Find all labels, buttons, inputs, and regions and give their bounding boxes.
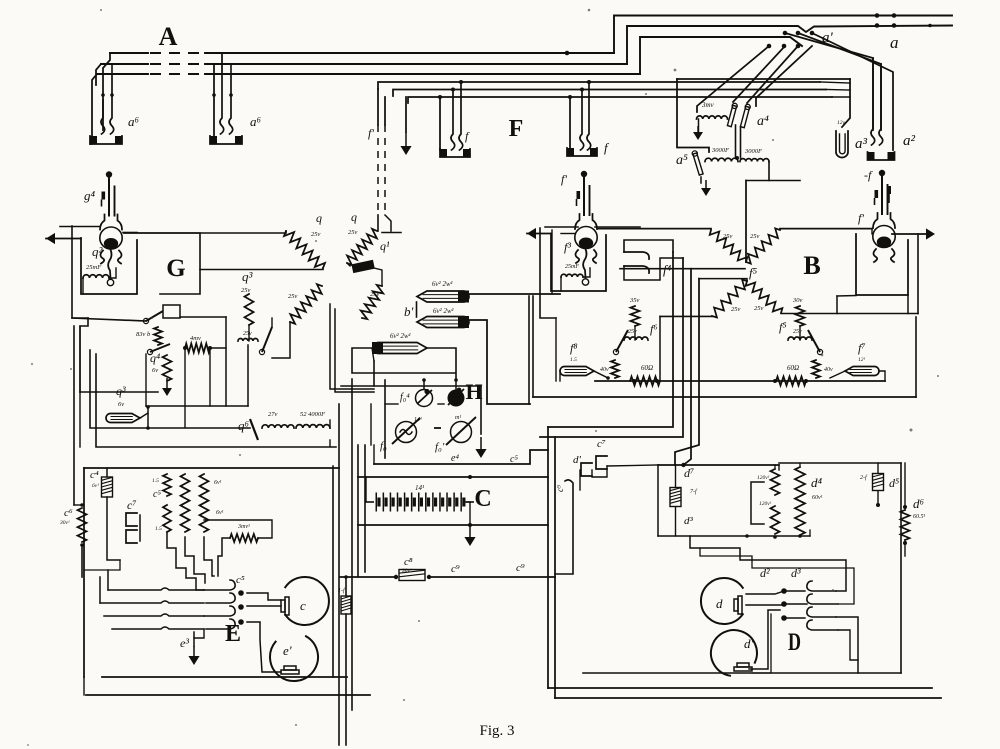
svg-text:F: F	[509, 116, 524, 142]
resistor 25v center G	[290, 284, 322, 324]
svg-text:6v² 2w¹: 6v² 2w¹	[432, 280, 453, 288]
svg-text:c⁷: c⁷	[597, 438, 606, 450]
tall resistor E 1	[181, 474, 190, 532]
svg-text:60.5¹: 60.5¹	[913, 514, 926, 520]
meter f04 circle	[416, 390, 433, 407]
svg-text:30v¹: 30v¹	[59, 520, 70, 526]
svg-text:c⁵: c⁵	[153, 489, 161, 500]
svg-text:d³: d³	[791, 566, 801, 580]
D box left verticals	[547, 427, 549, 688]
wire coil to pyramid	[769, 162, 800, 181]
wire trunk bus line 1	[110, 52, 148, 54]
pyramid resistor lower	[660, 315, 712, 317]
wire junction box lower	[180, 316, 226, 318]
svg-text:60Ω: 60Ω	[641, 364, 653, 372]
pyramid resistor f5 upper	[597, 228, 711, 230]
E wire band to hooks	[108, 588, 204, 590]
svg-text:d': d'	[744, 636, 754, 651]
wire bundle w4	[675, 279, 699, 465]
E outer bottom wire	[86, 694, 370, 696]
svg-text:q: q	[351, 210, 357, 224]
svg-text:b': b'	[404, 304, 414, 319]
svg-text:d⁵: d⁵	[889, 476, 899, 490]
fuse loop a3	[836, 131, 848, 158]
component on center vertical	[341, 596, 351, 614]
svg-text:25v: 25v	[750, 233, 760, 240]
C box bottom wire	[358, 524, 548, 526]
svg-text:25v: 25v	[754, 305, 764, 312]
H block wires	[384, 380, 386, 458]
left coil f6	[624, 337, 648, 340]
right resistor 60ohm	[776, 377, 806, 386]
vertical wires right of G	[330, 304, 374, 389]
wires from d coils down to hooks	[690, 536, 846, 591]
wire fan diagonal to a2 cup	[812, 33, 893, 150]
svg-text:30v¹: 30v¹	[401, 568, 412, 574]
switch hooks D bank	[807, 581, 836, 591]
svg-text:c⁹: c⁹	[555, 485, 565, 492]
switch blade q4	[150, 344, 170, 352]
svg-text:A: A	[159, 22, 178, 51]
svg-text:d': d'	[573, 454, 582, 466]
svg-text:83v b: 83v b	[136, 331, 151, 338]
svg-text:q¹: q¹	[380, 239, 390, 253]
svg-text:q⁶: q⁶	[238, 418, 250, 433]
meter dark circle	[448, 390, 465, 407]
D bottom outer wires	[548, 687, 932, 689]
svg-text:q³: q³	[242, 269, 254, 284]
svg-text:c⁹: c⁹	[451, 563, 460, 575]
svg-text:6v¹: 6v¹	[214, 480, 222, 486]
svg-text:25v: 25v	[723, 233, 733, 240]
svg-text:c⁹: c⁹	[516, 562, 525, 574]
D bottom inner wire	[583, 672, 901, 674]
section label D	[788, 628, 801, 656]
wire trunk bus line 3	[97, 73, 148, 75]
ground arrow below a5	[705, 180, 707, 190]
wire drops to cup f2	[569, 97, 571, 150]
wire drops from 4mv	[184, 348, 186, 427]
left outer vertical wires	[73, 326, 75, 505]
wire fan diagonal 4	[756, 46, 812, 106]
svg-text:C: C	[474, 486, 491, 512]
svg-text:12v: 12v	[837, 120, 846, 126]
wire drops to left cup 1	[103, 53, 110, 130]
svg-text:14¹: 14¹	[414, 416, 422, 423]
wires below coils d	[658, 535, 747, 537]
receiver d earpiece	[701, 578, 743, 624]
svg-text:d³: d³	[684, 515, 694, 527]
svg-text:c: c	[300, 598, 306, 613]
svg-text:E: E	[225, 621, 241, 647]
svg-text:f₀⁴: f₀⁴	[400, 392, 410, 403]
svg-text:25v: 25v	[311, 231, 321, 238]
svg-text:25v: 25v	[288, 293, 298, 300]
svg-text:6v¹: 6v¹	[216, 510, 224, 516]
svg-text:e⁴: e⁴	[451, 453, 459, 464]
left resistor 40v	[611, 360, 619, 378]
wire from e-prime plug	[247, 622, 281, 672]
H bottom wire	[374, 450, 548, 464]
battery cells 14	[366, 501, 374, 503]
svg-text:3mv¹: 3mv¹	[237, 524, 250, 530]
minus sign	[434, 427, 441, 429]
svg-text:f⁶: f⁶	[650, 322, 658, 336]
coil 3mv near a4	[697, 116, 728, 119]
svg-text:d⁴: d⁴	[811, 475, 823, 490]
C box top wire	[358, 476, 548, 478]
wire drops to cup f1	[439, 97, 441, 150]
AC source f0	[396, 422, 417, 443]
wire G bottom to E	[329, 440, 331, 446]
right coil	[788, 337, 812, 340]
B bottom inner wire	[595, 380, 885, 382]
resistor d4	[795, 467, 805, 535]
wire under resistor q	[200, 268, 323, 270]
svg-text:f': f'	[368, 126, 374, 140]
svg-text:60v¹: 60v¹	[812, 495, 823, 501]
hook wire to D	[555, 480, 573, 574]
svg-text:14¹: 14¹	[415, 484, 424, 492]
svg-text:G: G	[166, 255, 185, 282]
right output arrow B	[926, 228, 935, 239]
right switch blade	[808, 330, 820, 352]
switch hooks E bank	[204, 580, 235, 590]
svg-text:a⁶: a⁶	[250, 114, 262, 129]
svg-text:25mF: 25mF	[86, 264, 102, 271]
middle vertical wires	[528, 296, 530, 404]
vertical wires center bottom	[332, 466, 334, 677]
contact dots E	[238, 590, 244, 596]
svg-text:6v² 2w¹: 6v² 2w¹	[433, 307, 454, 315]
coil 25mF under tube	[83, 275, 109, 278]
svg-text:25v: 25v	[348, 229, 358, 236]
svg-text:a⁴: a⁴	[757, 114, 769, 129]
resistor with ground arrow in G	[163, 355, 172, 381]
wire resistor to coil	[272, 322, 290, 358]
svg-text:120v¹: 120v¹	[759, 501, 772, 507]
ground arrow below C	[469, 523, 471, 539]
svg-text:a³: a³	[855, 136, 868, 152]
ground arrow f branch	[405, 97, 407, 132]
svg-text:d²: d²	[760, 566, 770, 580]
wire fan diagonal 2	[733, 46, 785, 102]
resistor 3mv E	[230, 534, 258, 542]
triode tube g with antenna	[106, 171, 112, 177]
receiver d-prime earpiece	[711, 630, 757, 676]
induction coils 3000F pair	[705, 158, 738, 161]
wire F bus 1	[378, 82, 820, 89]
cup electrode left 1	[90, 136, 122, 144]
wire from tube top to resistor q	[124, 231, 286, 233]
resistor bank E small 2	[163, 505, 171, 532]
wire F bus 2	[393, 90, 826, 97]
svg-text:q³: q³	[116, 384, 126, 398]
left output arrow B	[527, 228, 536, 239]
tall resistor E 2	[200, 474, 209, 532]
svg-text:1.5: 1.5	[570, 357, 577, 363]
svg-text:d⁶: d⁶	[913, 496, 925, 511]
lamp b3 6v 2w	[373, 343, 427, 354]
wire c8 horizontal	[340, 576, 395, 578]
box around right tube	[856, 234, 908, 295]
wire bundle w1	[548, 252, 673, 427]
left switch blade	[616, 330, 628, 352]
arrow ground H right	[480, 386, 482, 434]
switch blades a4	[727, 105, 736, 126]
svg-text:d⁷: d⁷	[684, 466, 694, 480]
coil under q3	[238, 339, 258, 341]
left resistor 60ohm	[630, 377, 660, 386]
wire fan diagonal to a2 hook 2	[798, 33, 881, 130]
lamp b1 6v 2w	[417, 291, 469, 302]
svg-text:c⁵: c⁵	[510, 454, 518, 465]
coil under f3	[561, 274, 583, 277]
wires around b lamps	[469, 293, 560, 295]
svg-text:m¹: m¹	[455, 415, 461, 421]
svg-text:c⁷: c⁷	[127, 498, 137, 512]
svg-text:f⁷: f⁷	[858, 341, 866, 355]
scan specks	[674, 69, 677, 72]
svg-text:q²: q²	[92, 244, 104, 259]
svg-text:f⁵: f⁵	[749, 265, 758, 280]
svg-text:6v² 2w¹: 6v² 2w¹	[390, 332, 411, 340]
svg-text:60Ω: 60Ω	[787, 364, 799, 372]
B bottom outer wire	[533, 396, 916, 398]
cup electrode f2	[567, 148, 597, 156]
wire from a5 coil down to pyramid	[745, 181, 747, 263]
receiver e-prime earpiece	[270, 636, 318, 681]
svg-text:40v: 40v	[600, 366, 609, 373]
svg-text:B: B	[803, 251, 820, 280]
wire f-prime dashed drop	[377, 89, 379, 125]
wires blades to coils	[735, 125, 737, 158]
cup electrode a2	[868, 152, 895, 160]
box around tube f3	[551, 234, 606, 292]
E cascade wires	[167, 532, 204, 590]
contact dots D	[781, 588, 787, 594]
svg-text:q⁴: q⁴	[150, 351, 160, 365]
D top right rail	[779, 462, 901, 464]
switch blade q5	[262, 327, 272, 352]
D box top wire	[658, 464, 779, 466]
svg-text:c⁶: c⁶	[64, 507, 73, 519]
wire bundle w2	[540, 258, 683, 437]
svg-text:6v: 6v	[152, 367, 158, 374]
svg-text:3000F: 3000F	[711, 147, 730, 154]
cup electrode left 2	[210, 136, 242, 144]
svg-text:a⁶: a⁶	[128, 114, 140, 129]
svg-text:25v: 25v	[370, 291, 380, 298]
junction box small	[163, 305, 180, 318]
svg-text:25mF: 25mF	[565, 264, 579, 270]
wire F bus 3	[408, 97, 832, 103]
triode tube f3 with antenna	[581, 171, 587, 177]
svg-text:1.5: 1.5	[155, 526, 162, 532]
left verticals H-C	[357, 445, 359, 577]
wire drops to left cup 2	[213, 64, 215, 95]
E interior verticals	[84, 560, 120, 570]
svg-text:f⁵: f⁵	[779, 320, 787, 334]
left output arrow G	[46, 233, 55, 244]
svg-text:e³: e³	[180, 636, 189, 650]
E box outline	[83, 468, 85, 677]
svg-text:12¹: 12¹	[858, 357, 866, 363]
svg-text:6v: 6v	[118, 401, 124, 408]
svg-text:35v: 35v	[629, 297, 640, 304]
receiver c earpiece	[285, 577, 329, 625]
svg-text:H: H	[465, 379, 482, 404]
svg-text:c⁵: c⁵	[236, 574, 245, 586]
svg-text:f': f'	[858, 211, 864, 225]
svg-text:e': e'	[283, 643, 292, 658]
svg-text:f₀: f₀	[380, 440, 387, 452]
terminal dots on line a	[875, 13, 880, 18]
svg-text:a⁵: a⁵	[676, 153, 688, 168]
resistor 4mv horizontal	[185, 344, 210, 353]
resistor 25v below q1	[361, 285, 383, 319]
svg-text:40v: 40v	[824, 366, 833, 373]
wire fan diagonal 3	[747, 46, 798, 103]
svg-text:25v: 25v	[243, 331, 252, 337]
wire bundle w3	[684, 269, 692, 465]
svg-text:D: D	[788, 628, 801, 656]
svg-text:1.5: 1.5	[152, 478, 159, 484]
svg-text:a: a	[890, 33, 899, 52]
triode tube f-right with antenna	[887, 186, 891, 194]
lamp b2 6v 2w	[417, 317, 469, 328]
resistor q 25v right	[347, 229, 377, 265]
hook tails D	[836, 617, 858, 673]
svg-text:4mv: 4mv	[190, 335, 201, 342]
G block outer wires	[79, 326, 81, 392]
svg-text:6v¹: 6v¹	[92, 483, 99, 489]
resistor q 25v left	[284, 231, 325, 268]
component c8	[399, 570, 425, 581]
svg-text:Fig. 3: Fig. 3	[479, 723, 514, 739]
wire row y406	[146, 405, 248, 407]
svg-text:f': f'	[561, 172, 567, 186]
right resistor 40v	[812, 360, 820, 378]
wire left from pyramid valley	[620, 268, 745, 270]
wire fan diagonal to a2 hook 1	[785, 33, 873, 130]
wire fan diagonal 1	[697, 46, 769, 112]
wire box around a4 a5	[677, 79, 709, 152]
switch blade to junction box	[146, 311, 163, 321]
switch blade a5	[693, 153, 703, 175]
hook wires a2	[871, 58, 875, 145]
svg-text:3mv: 3mv	[701, 101, 715, 109]
AC source f0 prime	[451, 422, 472, 443]
svg-text:g⁴: g⁴	[84, 188, 96, 203]
svg-text:c⁸: c⁸	[404, 556, 413, 568]
wire across G lower	[80, 391, 158, 393]
svg-text:120v¹: 120v¹	[757, 475, 770, 481]
svg-text:q: q	[316, 211, 322, 225]
wire box around tube g	[81, 238, 137, 294]
cup electrode f1	[440, 149, 470, 157]
wire from d-prime plug	[749, 610, 780, 669]
svg-text:a²: a²	[903, 133, 916, 149]
ground arrow below 3mv resistor	[697, 126, 699, 134]
svg-text:25v: 25v	[731, 306, 741, 313]
svg-text:f₀': f₀'	[435, 441, 445, 453]
svg-text:52 4000F: 52 4000F	[300, 411, 326, 418]
svg-text:f³: f³	[564, 240, 571, 254]
svg-text:d: d	[716, 596, 723, 611]
wire trunk bus line 2	[101, 63, 148, 65]
svg-text:27v: 27v	[268, 411, 278, 418]
svg-text:c⁴: c⁴	[90, 469, 99, 481]
D box top-right wires	[778, 465, 780, 470]
wires meters	[423, 380, 425, 389]
coil 27v 52 4000F	[262, 425, 294, 428]
svg-text:30v: 30v	[792, 297, 803, 304]
wire bus into blade	[72, 318, 146, 321]
svg-text:f⁸: f⁸	[570, 341, 578, 355]
svg-text:3000F: 3000F	[744, 148, 763, 155]
